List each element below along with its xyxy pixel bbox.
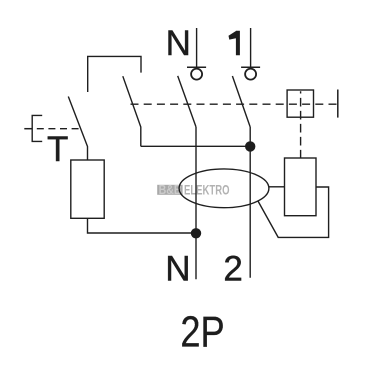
switch pole N blade bbox=[178, 76, 196, 127]
dashed link T button to test contact bbox=[32, 128, 79, 130]
wire resistor to N junction bbox=[88, 219, 197, 233]
mechanical linkage dashed bbox=[131, 103, 337, 105]
wire test circuit top bridge bbox=[88, 56, 141, 92]
trip linkage end stop bbox=[337, 90, 339, 118]
wire toroid to trip coil bbox=[269, 186, 285, 188]
wire trip coil return loop bbox=[258, 187, 329, 237]
junction dot line 2 test branch bbox=[245, 141, 255, 151]
svg-text:T: T bbox=[47, 130, 68, 169]
junction dot N test return bbox=[191, 228, 201, 238]
svg-text:2: 2 bbox=[223, 250, 242, 289]
trip mechanism box bbox=[287, 90, 313, 117]
auxiliary test contact blade bbox=[123, 76, 141, 146]
test contact switch blade bbox=[68, 97, 87, 161]
svg-text:B&B: B&B bbox=[159, 182, 182, 197]
current transformer toroid bbox=[179, 169, 269, 208]
wire test branch to line 2 bbox=[141, 145, 251, 147]
terminal 1 top lead bbox=[241, 28, 260, 80]
svg-text:2P: 2P bbox=[180, 308, 224, 357]
dashed actuator trip coil to mechanism bbox=[300, 91, 302, 158]
svg-text:N: N bbox=[166, 24, 191, 63]
wire N conductor bbox=[195, 127, 197, 279]
svg-text:N: N bbox=[165, 249, 190, 288]
resistor R test bbox=[71, 160, 104, 218]
label 1 top bbox=[229, 31, 240, 55]
wire line 2 conductor bbox=[249, 127, 251, 278]
switch pole 2 blade bbox=[232, 76, 250, 127]
svg-text:ELEKTRO: ELEKTRO bbox=[184, 182, 230, 197]
test button T actuator bbox=[24, 115, 42, 141]
terminal N top lead bbox=[187, 28, 206, 80]
trip coil bbox=[285, 158, 317, 216]
